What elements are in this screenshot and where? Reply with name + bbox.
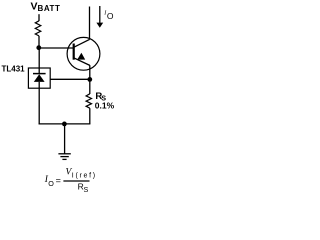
transistor Q1 (NPN): [67, 37, 100, 70]
svg-text:S: S: [84, 185, 89, 194]
wire R1 to node A: [38, 36, 40, 48]
wire TL431 anode to ground rail: [38, 88, 40, 124]
resistor R1: [35, 21, 41, 36]
label RS value: [95, 91, 115, 111]
svg-text:V: V: [31, 0, 38, 12]
node B junction dot: [87, 77, 92, 82]
TL431 anode lead: [38, 82, 40, 88]
ground: [58, 124, 70, 159]
resistor RS: [86, 94, 91, 108]
wire TL431 ref: [50, 78, 90, 80]
wire collector up: [89, 7, 91, 40]
node VBATT label: [31, 0, 61, 12]
svg-text:O: O: [107, 11, 114, 21]
TL431 cathode lead: [38, 68, 40, 74]
TL431 U1 box: [28, 68, 50, 88]
wire VBATT stub: [38, 14, 40, 21]
node GND junction dot: [62, 122, 67, 127]
TL431 cathode bar: [33, 73, 46, 75]
current arrow IO: [96, 6, 103, 28]
svg-text:O: O: [48, 179, 54, 188]
wire RS to rail: [89, 108, 91, 124]
svg-text:=: =: [56, 175, 61, 185]
wire bottom rail: [39, 123, 91, 125]
TL431 anode triangle: [34, 74, 45, 82]
wire node A to TL431 cathode: [38, 48, 40, 68]
node A junction dot: [36, 45, 41, 50]
wire base: [39, 47, 74, 49]
svg-text:0.1%: 0.1%: [95, 101, 115, 111]
svg-text:I(ref): I(ref): [72, 172, 97, 179]
label IO: [103, 11, 114, 22]
equation IO = VI(ref)/RS: [44, 167, 97, 194]
wire emitter down: [89, 65, 91, 94]
svg-text:TL431: TL431: [2, 64, 26, 73]
svg-text:BATT: BATT: [38, 4, 61, 13]
